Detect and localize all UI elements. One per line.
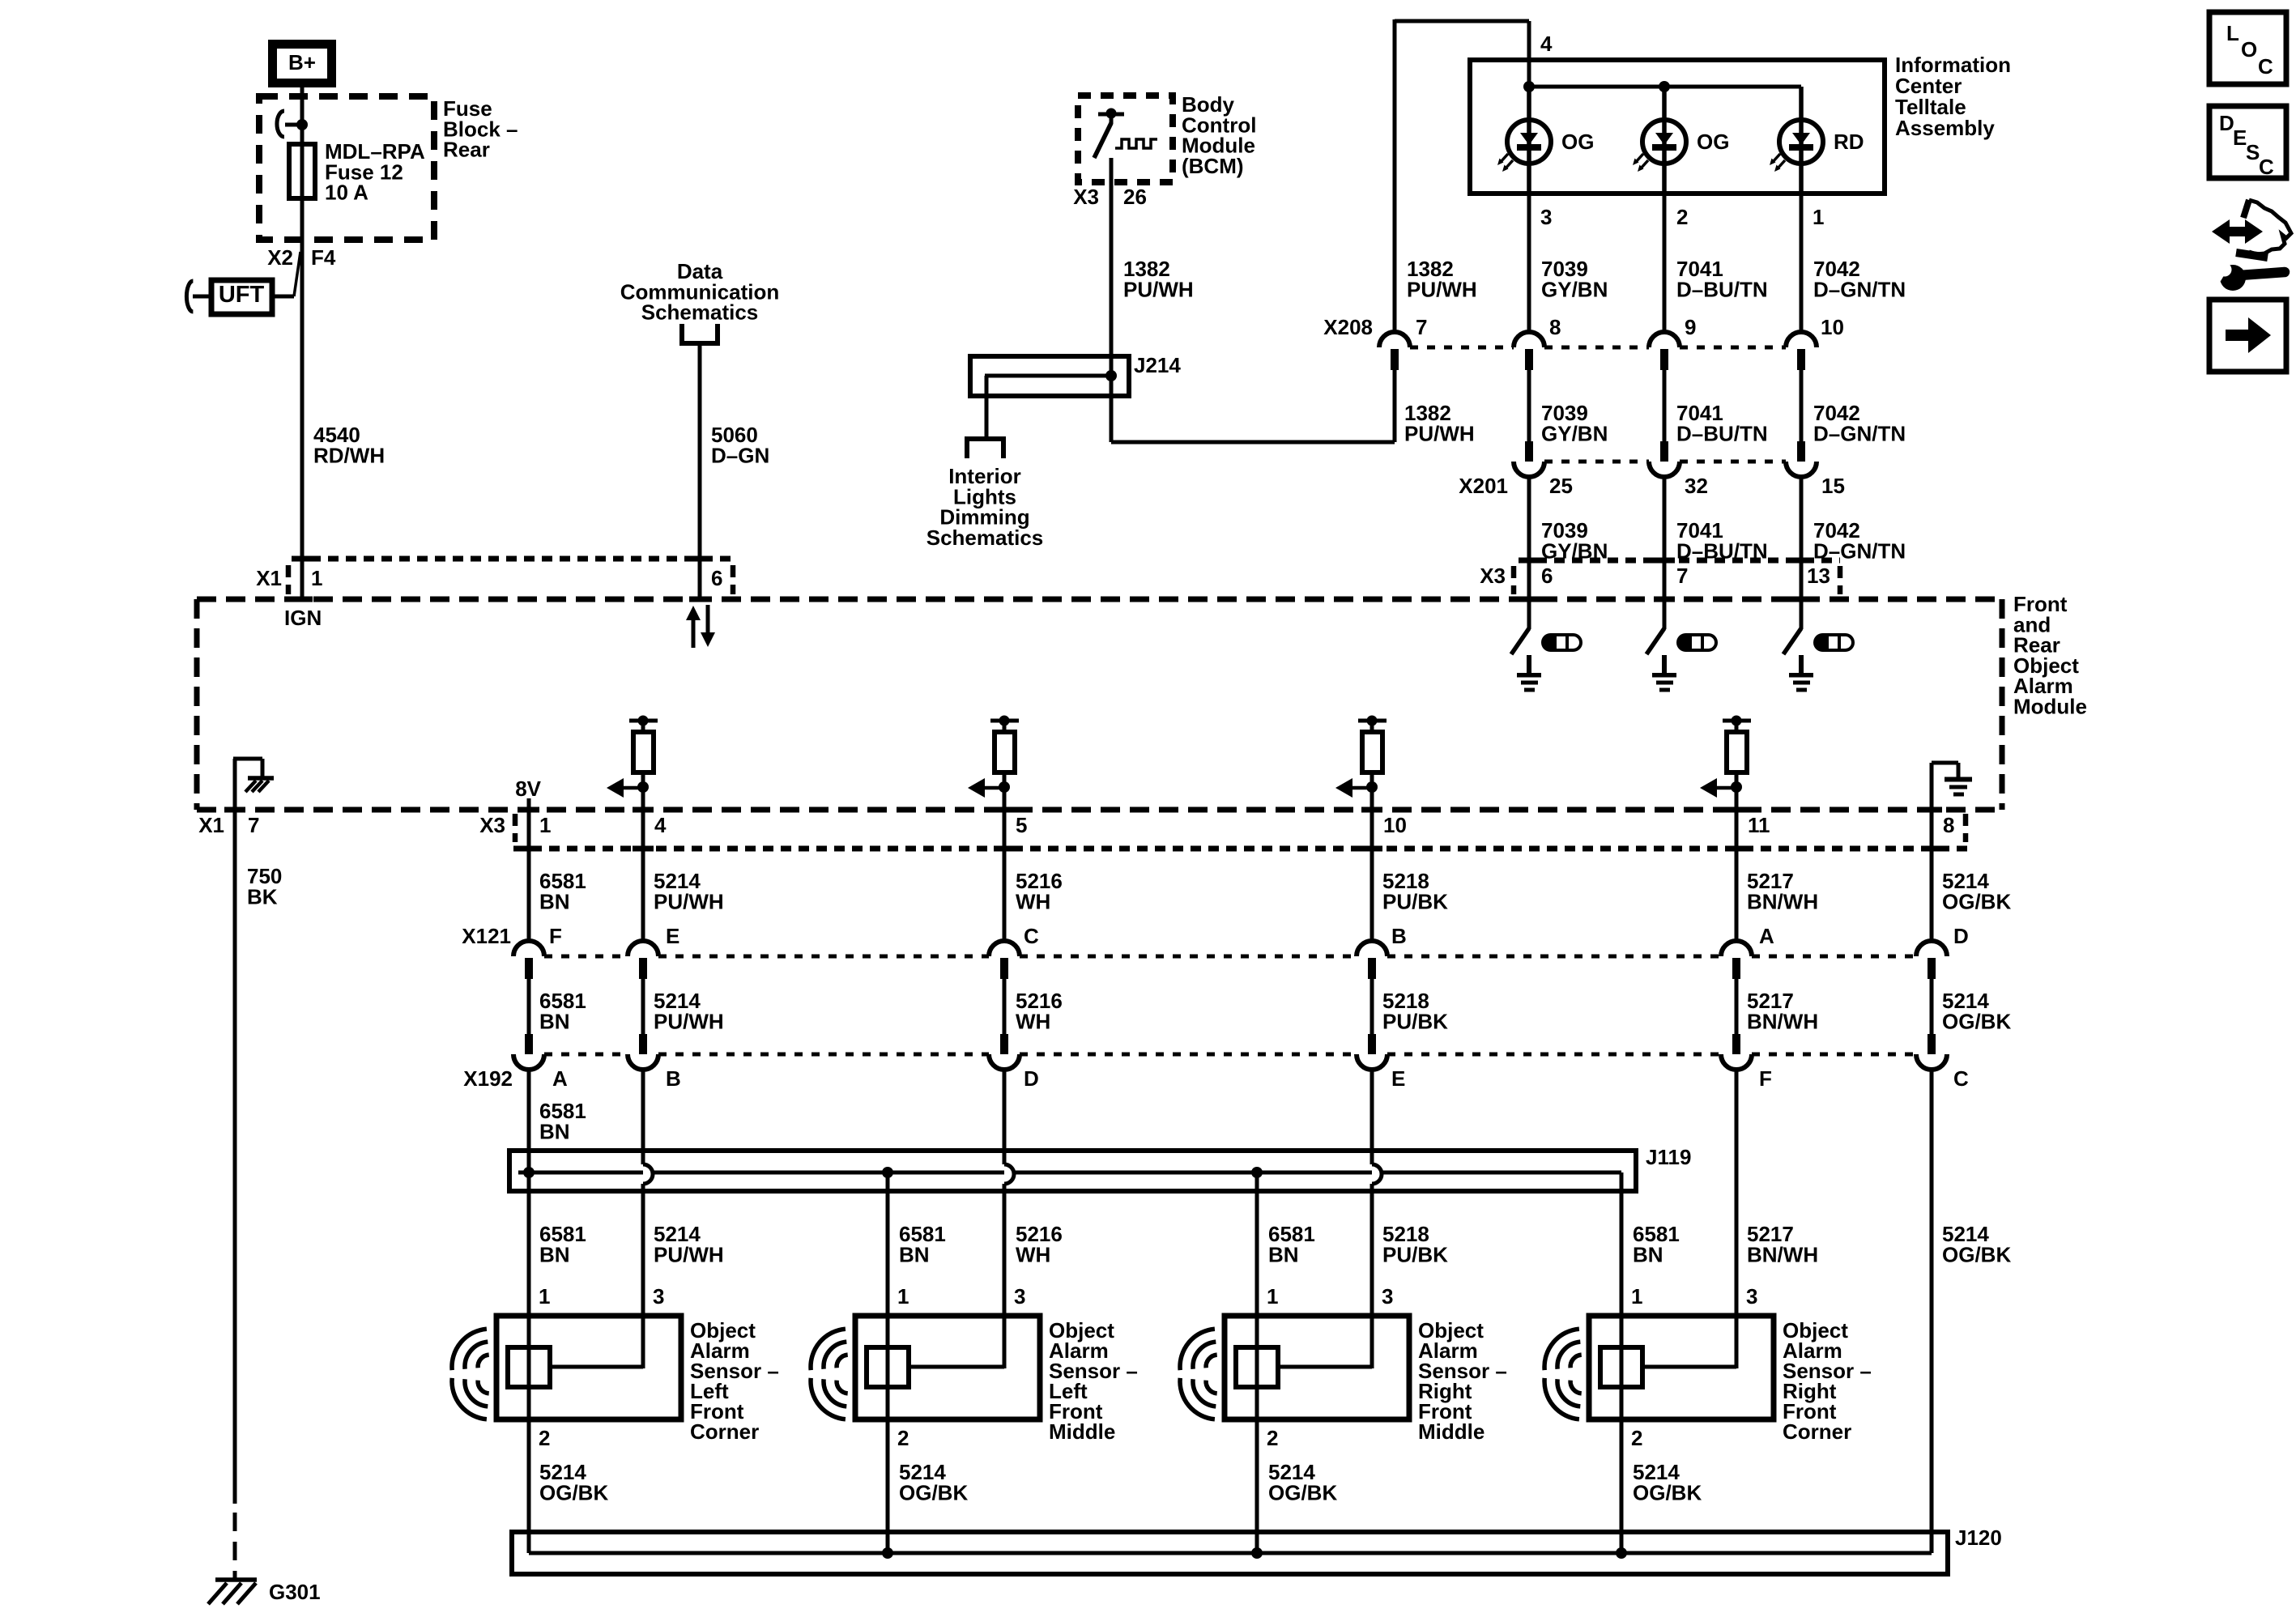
svg-text:3: 3 <box>1014 1284 1025 1308</box>
splice pack J214 <box>970 356 1129 396</box>
fuse clip symbol <box>277 111 284 137</box>
svg-text:S: S <box>2246 140 2260 164</box>
internal pull-up resistor and sense arrow (col 10) <box>1358 719 1387 723</box>
wire 1382 PU/WH from BCM <box>1110 158 1114 442</box>
svg-text:O: O <box>2241 37 2257 62</box>
wire UFT to main feed <box>272 295 294 299</box>
drop to interior lights dimming <box>985 376 989 439</box>
svg-text:(BCM): (BCM) <box>1182 154 1244 178</box>
svg-text:8: 8 <box>1943 813 1954 837</box>
svg-text:4: 4 <box>1540 32 1553 56</box>
svg-text:4: 4 <box>654 813 667 837</box>
splice pack J120 <box>512 1532 1948 1574</box>
svg-text:RD: RD <box>1834 130 1864 154</box>
svg-text:BN: BN <box>539 1242 570 1266</box>
wire pin3 inside sensor <box>1370 1316 1374 1368</box>
wire pin1 inside sensor <box>1255 1316 1259 1419</box>
svg-text:Schematics: Schematics <box>926 526 1044 550</box>
svg-text:A: A <box>1759 924 1774 948</box>
svg-text:UFT: UFT <box>219 282 265 308</box>
svg-text:2: 2 <box>1676 205 1688 229</box>
svg-text:BN: BN <box>1633 1242 1663 1266</box>
information center telltale assembly box <box>1470 60 1885 194</box>
svg-text:2: 2 <box>897 1426 909 1450</box>
svg-text:L: L <box>2226 21 2239 45</box>
sensor inner square <box>1600 1347 1642 1387</box>
svg-text:BN: BN <box>1268 1242 1299 1266</box>
svg-text:1: 1 <box>1631 1284 1642 1308</box>
svg-text:1: 1 <box>1813 205 1824 229</box>
sensor drop wires <box>886 1172 890 1316</box>
wire pin1 inside sensor <box>1620 1316 1624 1419</box>
wire 5060 D-GN <box>698 343 702 599</box>
wires X192 down <box>527 1070 531 1316</box>
svg-text:5: 5 <box>1016 813 1027 837</box>
svg-text:D–GN: D–GN <box>711 443 769 467</box>
svg-text:E: E <box>1391 1066 1405 1091</box>
svg-text:C: C <box>1024 924 1039 948</box>
svg-text:C: C <box>2259 155 2274 179</box>
svg-text:X3: X3 <box>479 813 505 837</box>
svg-text:OG/BK: OG/BK <box>539 1480 608 1504</box>
svg-text:2: 2 <box>1631 1426 1642 1450</box>
svg-text:1: 1 <box>897 1284 909 1308</box>
internal switch outputs <box>1527 599 1531 629</box>
svg-text:BN: BN <box>539 1009 570 1033</box>
svg-text:10: 10 <box>1383 813 1407 837</box>
LED indicator RD <box>1799 87 1804 194</box>
object alarm sensor box (Left Front Corner) <box>496 1316 681 1419</box>
svg-text:1: 1 <box>1267 1284 1278 1308</box>
svg-text:X121: X121 <box>462 924 511 948</box>
svg-text:8: 8 <box>1549 315 1561 339</box>
body control module (BCM) dashed box <box>1078 96 1173 182</box>
svg-text:13: 13 <box>1807 564 1830 588</box>
svg-text:OG/BK: OG/BK <box>899 1480 968 1504</box>
UFT connector <box>211 280 272 314</box>
svg-text:Corner: Corner <box>690 1419 759 1444</box>
wire pin1 inside sensor <box>527 1316 531 1419</box>
svg-text:BN/WH: BN/WH <box>1747 889 1818 913</box>
svg-text:Corner: Corner <box>1783 1419 1851 1444</box>
svg-text:J214: J214 <box>1134 353 1181 377</box>
ground G301 <box>215 1577 257 1582</box>
wire B+ to fuse <box>300 87 305 599</box>
wire pin3 inside sensor <box>641 1316 645 1368</box>
svg-text:BN: BN <box>539 889 570 913</box>
wires module to X121 with labels <box>527 810 531 941</box>
svg-text:OG/BK: OG/BK <box>1268 1480 1337 1504</box>
sensor inner square <box>508 1347 550 1387</box>
svg-text:1: 1 <box>539 813 551 837</box>
svg-text:PU/WH: PU/WH <box>1404 421 1475 445</box>
wire 1382 PU/WH up to telltale pin 4 <box>1393 19 1397 332</box>
svg-text:6: 6 <box>711 566 722 590</box>
svg-text:X3: X3 <box>1480 564 1506 588</box>
svg-text:BK: BK <box>247 884 278 908</box>
svg-text:RD/WH: RD/WH <box>313 443 385 467</box>
svg-text:X192: X192 <box>463 1066 513 1091</box>
wires X121 to X192 with labels <box>527 979 531 1034</box>
svg-text:7: 7 <box>1676 564 1688 588</box>
hand/wrench service icon <box>2212 219 2263 244</box>
svg-text:10 A: 10 A <box>325 181 368 205</box>
LED indicator OG <box>1662 87 1667 194</box>
svg-text:D–BU/TN: D–BU/TN <box>1676 277 1768 301</box>
svg-text:OG/BK: OG/BK <box>1633 1480 1702 1504</box>
svg-text:GY/BN: GY/BN <box>1541 277 1608 301</box>
sensor sound waves <box>837 1355 848 1368</box>
svg-text:PU/BK: PU/BK <box>1382 1009 1448 1033</box>
svg-text:E: E <box>666 924 679 948</box>
sensor inner square <box>867 1347 909 1387</box>
svg-text:D–BU/TN: D–BU/TN <box>1676 421 1768 445</box>
svg-text:C: C <box>1953 1066 1969 1091</box>
svg-text:WH: WH <box>1016 1242 1050 1266</box>
svg-text:GY/BN: GY/BN <box>1541 421 1608 445</box>
svg-text:OG/BK: OG/BK <box>1942 1009 2011 1033</box>
svg-text:PU/WH: PU/WH <box>654 1242 724 1266</box>
sensor inner square <box>1236 1347 1278 1387</box>
off-page bracket <box>679 324 684 343</box>
svg-text:Middle: Middle <box>1418 1419 1485 1444</box>
svg-text:BN: BN <box>539 1119 570 1143</box>
svg-text:WH: WH <box>1016 1009 1050 1033</box>
svg-text:BN/WH: BN/WH <box>1747 1242 1818 1266</box>
wires to X208 with labels <box>1527 194 1531 332</box>
connector X121 <box>544 955 628 959</box>
svg-text:6: 6 <box>1541 564 1553 588</box>
connector X3 row bottom <box>513 846 1968 852</box>
wire pin3 inside sensor <box>1003 1316 1007 1368</box>
internal pull-up resistor and sense arrow (col 4) <box>629 719 658 723</box>
sensor sound waves <box>1570 1355 1582 1368</box>
svg-text:J119: J119 <box>1646 1145 1691 1169</box>
sensor sound waves <box>1206 1355 1217 1368</box>
object alarm sensor box (Right Front Corner) <box>1589 1316 1774 1419</box>
svg-text:2: 2 <box>539 1426 550 1450</box>
svg-text:Schematics: Schematics <box>641 300 759 325</box>
svg-text:IGN: IGN <box>284 606 322 630</box>
svg-text:F: F <box>549 924 562 948</box>
svg-text:2: 2 <box>1267 1426 1278 1450</box>
svg-text:PU/BK: PU/BK <box>1382 889 1448 913</box>
svg-text:B: B <box>666 1066 681 1091</box>
object alarm sensor box (Right Front Middle) <box>1225 1316 1409 1419</box>
wires X201 to module with labels <box>1527 477 1531 599</box>
svg-text:10: 10 <box>1821 315 1844 339</box>
svg-text:26: 26 <box>1123 185 1147 209</box>
svg-text:9: 9 <box>1685 315 1696 339</box>
serial data arrows <box>692 617 696 648</box>
svg-text:8V: 8V <box>515 777 541 801</box>
wire hops over J119 bus <box>643 1164 653 1184</box>
svg-text:3: 3 <box>1382 1284 1393 1308</box>
internal ground right (earth) <box>1930 763 1934 810</box>
svg-text:B+: B+ <box>288 50 316 74</box>
svg-text:PU/WH: PU/WH <box>1123 277 1194 301</box>
svg-text:WH: WH <box>1016 889 1050 913</box>
connector X3 row top <box>1519 558 1840 564</box>
internal pull-up resistor and sense arrow (col 5) <box>990 719 1019 723</box>
wire pin3 inside sensor <box>1735 1316 1739 1368</box>
LED bus <box>1529 85 1801 89</box>
svg-text:11: 11 <box>1748 813 1770 837</box>
internal ground left (chassis) <box>233 759 237 810</box>
svg-text:1: 1 <box>539 1284 550 1308</box>
front and rear object alarm module dashed box <box>197 599 2002 810</box>
junction node at fuse <box>296 119 308 130</box>
svg-text:BN/WH: BN/WH <box>1747 1009 1818 1033</box>
LOC icon <box>2209 12 2286 84</box>
svg-text:J120: J120 <box>1955 1526 2002 1550</box>
svg-text:G301: G301 <box>269 1580 321 1604</box>
PWM wave symbol <box>1115 139 1157 148</box>
fuse block dashed box <box>259 96 434 240</box>
svg-text:F4: F4 <box>311 245 336 270</box>
connector X1 row top <box>292 556 733 562</box>
object alarm sensor box (Left Front Middle) <box>855 1316 1040 1419</box>
connector X192 <box>544 1053 628 1057</box>
svg-text:Rear: Rear <box>443 138 490 162</box>
battery feed B+ <box>273 45 332 83</box>
svg-text:3: 3 <box>1540 205 1552 229</box>
wire pin1 inside sensor <box>886 1316 890 1419</box>
svg-text:32: 32 <box>1685 474 1708 498</box>
svg-text:1: 1 <box>311 566 322 590</box>
wires X208 to X201 with labels <box>1527 370 1531 443</box>
DESC icon <box>2209 106 2286 178</box>
svg-text:X1: X1 <box>256 566 282 590</box>
connector X201 <box>1544 460 1649 464</box>
svg-text:3: 3 <box>1746 1284 1757 1308</box>
svg-text:PU/WH: PU/WH <box>1407 277 1477 301</box>
svg-text:B: B <box>1391 924 1407 948</box>
svg-text:Assembly: Assembly <box>1895 116 1995 140</box>
svg-text:C: C <box>2258 54 2273 79</box>
svg-text:BN: BN <box>899 1242 930 1266</box>
fuse MDL-RPA Fuse 12 10A <box>289 144 315 198</box>
svg-text:7: 7 <box>248 813 259 837</box>
connector X208 <box>1410 346 1514 350</box>
svg-text:X2: X2 <box>267 245 293 270</box>
svg-text:D–GN/TN: D–GN/TN <box>1813 277 1906 301</box>
BCM internal driver switch <box>1098 113 1124 117</box>
svg-text:D: D <box>2219 111 2234 135</box>
svg-text:D–GN/TN: D–GN/TN <box>1813 421 1906 445</box>
svg-text:OG/BK: OG/BK <box>1942 1242 2011 1266</box>
svg-text:PU/BK: PU/BK <box>1382 1242 1448 1266</box>
svg-text:7: 7 <box>1416 315 1427 339</box>
svg-text:F: F <box>1759 1066 1772 1091</box>
svg-text:OG: OG <box>1561 130 1594 154</box>
svg-text:X3: X3 <box>1073 185 1099 209</box>
svg-text:X201: X201 <box>1459 474 1508 498</box>
svg-text:15: 15 <box>1821 474 1845 498</box>
svg-text:D: D <box>1953 924 1969 948</box>
svg-text:X1: X1 <box>198 813 224 837</box>
svg-text:PU/WH: PU/WH <box>654 1009 724 1033</box>
svg-text:X208: X208 <box>1323 315 1373 339</box>
svg-text:OG/BK: OG/BK <box>1942 889 2011 913</box>
LED indicator OG <box>1527 87 1531 194</box>
wire J214 to X208 <box>1111 440 1395 445</box>
svg-text:OG: OG <box>1697 130 1729 154</box>
svg-text:25: 25 <box>1549 474 1573 498</box>
svg-text:Module: Module <box>2013 695 2087 719</box>
svg-text:A: A <box>552 1066 568 1091</box>
svg-text:3: 3 <box>653 1284 664 1308</box>
svg-text:PU/WH: PU/WH <box>654 889 724 913</box>
splice pack J119 <box>509 1151 1636 1191</box>
forward arrow icon <box>2209 300 2286 372</box>
pin2 wires to J120 with labels <box>527 1419 531 1553</box>
svg-text:D: D <box>1024 1066 1039 1091</box>
internal pull-up resistor and sense arrow (col 11) <box>1723 719 1751 723</box>
wire 750 BK <box>233 810 237 1504</box>
svg-text:E: E <box>2233 126 2247 150</box>
sensor sound waves <box>478 1355 489 1368</box>
svg-text:Middle: Middle <box>1049 1419 1115 1444</box>
